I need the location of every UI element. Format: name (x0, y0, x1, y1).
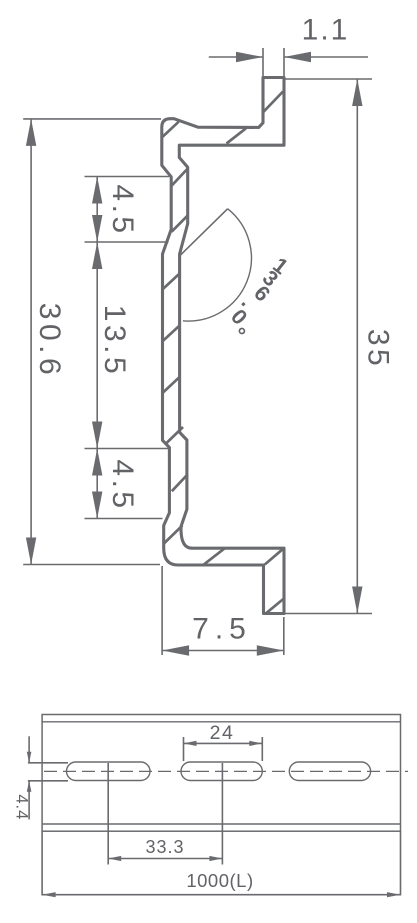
dimension 33.3 (slot pitch) (107, 763, 109, 865)
hatch web mid C (163, 377, 180, 393)
plan view: rail outline rectangle (42, 715, 400, 832)
plan view: bottom bend edge line (42, 823, 400, 825)
svg-text:7.5: 7.5 (192, 613, 252, 646)
slot 2 (181, 762, 262, 781)
svg-text:24: 24 (210, 722, 235, 744)
svg-text:33.3: 33.3 (145, 837, 184, 857)
svg-text:30.6: 30.6 (33, 303, 66, 379)
svg-text:4.5: 4.5 (106, 459, 139, 511)
svg-text:1.1: 1.1 (302, 14, 350, 47)
dimension 1000(L) (rail length) (41, 831, 43, 895)
svg-text:1000(L): 1000(L) (186, 870, 253, 891)
svg-text:13.5: 13.5 (98, 305, 131, 377)
plan view: top bend edge line (42, 721, 400, 723)
dimension 4.4 (slot width) (28, 762, 68, 764)
hatch web lower (172, 474, 188, 491)
svg-text:35: 35 (362, 329, 395, 369)
hatch top corner (162, 122, 179, 138)
DIN rail cross-section profile outline (162, 78, 284, 614)
hatch bottom lip lower (266, 599, 283, 613)
dimension 7.5 (bottom) (161, 566, 163, 655)
hatch bottom corner (163, 526, 182, 545)
hatch web mid B (163, 326, 180, 342)
hatch top flange (227, 128, 247, 143)
dimension 30.6 (left) (23, 118, 161, 120)
hatch web jog (166, 427, 184, 444)
angle dimension arc (183, 209, 252, 321)
svg-text:4.5: 4.5 (106, 184, 139, 236)
hatch bottom flange (203, 549, 224, 565)
dimension 4.5 lower (left) (85, 518, 163, 520)
slot 3 (289, 762, 370, 781)
angle dimension 136.0 degrees: radius ray (181, 209, 228, 255)
dimension 13.5 (left) (85, 448, 170, 450)
hatch bottom lip upper (265, 549, 284, 565)
svg-text:4.4: 4.4 (13, 794, 31, 820)
plan view: dashed centerline (44, 770, 408, 772)
hatch top lip (264, 92, 284, 112)
dimension 24 (slot length) (183, 737, 185, 761)
hatch web mid A (163, 274, 180, 290)
dimension 4.5 upper (left) (85, 176, 170, 178)
hatch web upper A (172, 169, 188, 186)
slot 1 (67, 762, 151, 781)
dimension 35 (right) (284, 78, 372, 80)
dimension 1.1 (top) (262, 48, 264, 78)
hatch web upper B (172, 216, 188, 232)
